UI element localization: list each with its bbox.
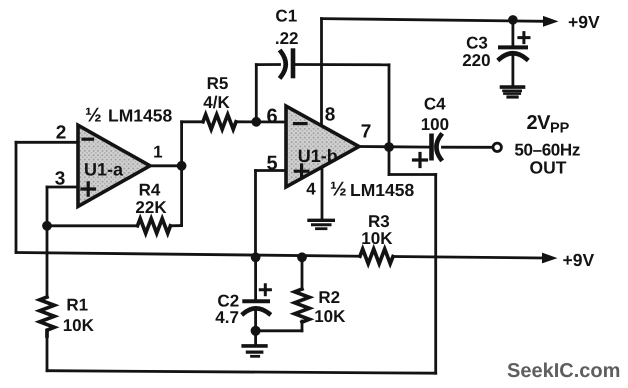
node pin3/R4/R1 junction [42, 221, 52, 231]
svg-text:220: 220 [462, 51, 490, 70]
svg-text:R5: R5 [207, 74, 229, 93]
wire top +9V rail [322, 19, 545, 22]
resistor R4 [138, 219, 171, 234]
resistor R1 [40, 297, 55, 336]
svg-text:+9V: +9V [568, 12, 600, 32]
svg-text:2VPP: 2VPP [527, 112, 570, 137]
op-amp U1-a [78, 125, 150, 206]
wire C1 left leg down to node 6 [255, 65, 258, 122]
ground (C2) [243, 344, 266, 348]
node U1-a output junction [177, 161, 187, 171]
svg-text:10K: 10K [314, 307, 346, 326]
wire right vertical feedback [434, 175, 437, 374]
wire pin2 row [16, 141, 78, 144]
wire C2 bottom to ground node [254, 309, 257, 344]
svg-text:U1-a: U1-a [84, 160, 124, 180]
wire C2 stem from rail [254, 257, 257, 299]
wire R5 left leg [182, 120, 203, 123]
svg-text:C1: C1 [275, 7, 297, 26]
wire pin6 row [236, 120, 286, 123]
svg-text:4.7: 4.7 [215, 308, 239, 327]
svg-text:8: 8 [325, 105, 336, 126]
wire left vertical (pin2 to bias rail) [15, 142, 18, 252]
svg-text:C4: C4 [424, 95, 446, 114]
node pin6 junction [251, 117, 261, 127]
power +9V arrow (top) [543, 16, 559, 27]
wire C3 bottom stem [512, 56, 515, 86]
wire mid +9V rail right part [393, 257, 543, 259]
capacitor C2 [244, 299, 268, 303]
node R2 top junction [297, 252, 307, 262]
wire bottom rail [47, 371, 436, 374]
svg-text:1: 1 [153, 143, 162, 162]
svg-text:10K: 10K [361, 229, 393, 248]
wire U1-b output row [359, 145, 429, 148]
wire R2 bottom leg [301, 321, 304, 331]
capacitor C4 [429, 136, 434, 158]
svg-text:R4: R4 [139, 181, 161, 200]
svg-text:R2: R2 [318, 288, 340, 307]
capacitor C2 plus sign [260, 285, 270, 295]
wire C4 to output terminal [443, 146, 493, 149]
power +9V arrow (mid) [542, 253, 558, 264]
svg-text:OUT: OUT [530, 158, 567, 178]
node U1-b output junction [384, 142, 394, 152]
wire U1-a output [150, 164, 182, 167]
svg-text:22K: 22K [135, 198, 167, 217]
svg-text:½: ½ [85, 105, 102, 127]
wire U1-a output vertical (R5/R4 leg) [180, 122, 183, 226]
svg-text:R1: R1 [66, 296, 88, 315]
svg-text:7: 7 [361, 122, 372, 143]
node C2/R2 ground junction [251, 326, 261, 336]
svg-text:3: 3 [55, 169, 66, 190]
svg-text:6: 6 [266, 106, 277, 128]
wire pin3 row [47, 186, 78, 189]
wire C1 row right [295, 63, 390, 66]
svg-text:C3: C3 [466, 33, 488, 52]
svg-text:2: 2 [56, 123, 67, 144]
ground (C3) [502, 85, 524, 89]
resistor R3 [360, 249, 393, 264]
wire feedback jog horizontal [389, 173, 436, 176]
node C3 top junction [508, 15, 518, 25]
capacitor C3 plus sign [519, 33, 529, 43]
wire C1 right leg / output feedback vertical [388, 65, 391, 175]
svg-text:LM1458: LM1458 [108, 106, 172, 126]
svg-text:4/K: 4/K [203, 93, 230, 112]
svg-text:4: 4 [306, 179, 316, 198]
svg-text:5: 5 [266, 153, 277, 175]
wire pin5 row [256, 169, 287, 172]
capacitor C4 plus sign [414, 154, 427, 167]
wire mid +9V rail left part [16, 253, 360, 257]
resistor R5 [203, 115, 236, 130]
wire R2 to C2 ground link [256, 329, 302, 332]
wire R1 bottom to bottom rail [46, 334, 49, 371]
svg-text:+9V: +9V [563, 250, 595, 270]
svg-text:U1-b: U1-b [298, 146, 338, 166]
wire R4 row left [47, 224, 138, 227]
op-amp U1-b [286, 106, 359, 187]
ground (U1-b pin4) [309, 219, 333, 222]
wire pin8 supply vertical [320, 19, 323, 126]
wire C3 stem top [512, 20, 515, 46]
wire R4 row right [170, 224, 181, 227]
node C2 top junction [251, 252, 261, 262]
wire pin3 vertical down to R1 [46, 187, 49, 297]
wire C1 row left [256, 63, 279, 66]
svg-text:.22: .22 [275, 29, 299, 48]
wire R2 top leg [301, 257, 304, 289]
svg-text:½: ½ [330, 178, 347, 200]
wire pin5 leg down to rail [254, 171, 257, 258]
capacitor C3 [500, 45, 526, 49]
output terminal [493, 143, 501, 151]
svg-text:LM1458: LM1458 [350, 180, 414, 200]
resistor R2 [295, 289, 310, 322]
wire pin4 stem [321, 167, 324, 219]
svg-text:100: 100 [421, 115, 449, 134]
svg-text:SeekIC.com: SeekIC.com [507, 360, 620, 382]
svg-text:10K: 10K [63, 316, 95, 335]
capacitor C1 [281, 52, 286, 77]
